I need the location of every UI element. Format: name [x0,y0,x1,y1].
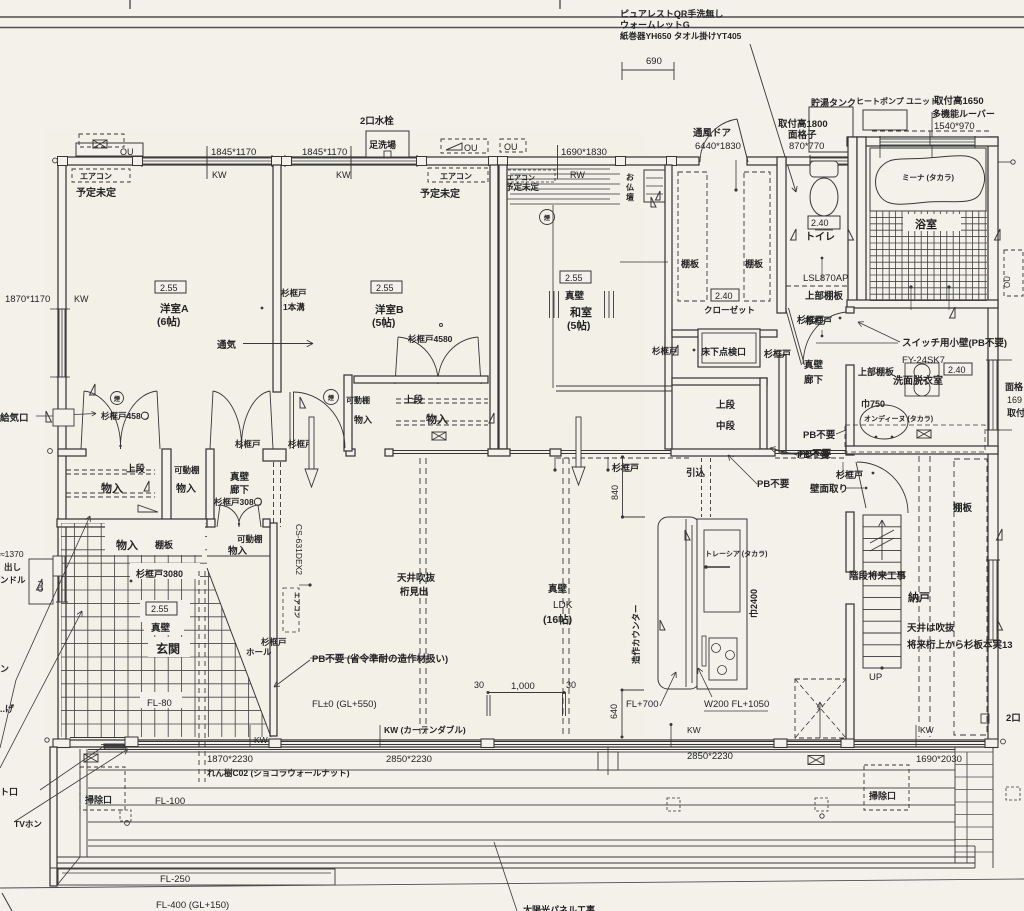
leader lines bottom-left [40,744,107,790]
big hollow arrow hall 2 [576,417,581,467]
kitchen sink unit [704,530,740,612]
svg-text:≈1370: ≈1370 [0,549,24,559]
svg-text:お: お [626,173,634,182]
leader arrows into genkan [16,516,90,680]
svg-text:FL±0 (GL+550): FL±0 (GL+550) [312,699,377,710]
svg-text:物入: 物入 [176,482,196,495]
svg-text:1870*1170: 1870*1170 [5,294,50,305]
small circle right of bath [1011,160,1015,164]
genkan diagonal [207,568,271,737]
nando window right wall [989,560,997,640]
washroom window right wall [989,360,997,430]
svg-text:2.55: 2.55 [151,604,169,614]
svg-text:物入: 物入 [354,414,372,425]
door washroom->hall arc [803,312,846,364]
yoshitsuA label [155,281,186,293]
svg-text:RW: RW [570,170,585,180]
top border double line [0,16,1024,18]
svg-text:仏: 仏 [625,183,634,192]
svg-text:FL-100: FL-100 [155,796,185,807]
svg-text:トレーシア (タカラ): トレーシア (タカラ) [705,549,767,558]
souji-guchi boxes [80,767,125,810]
svg-text:ヒートポンプ ユニット: ヒートポンプ ユニット [856,96,938,106]
washitsu right wall [665,165,672,449]
bath tile grid [870,211,987,301]
svg-text:面格: 面格 [1005,381,1024,392]
svg-text:TVホン: TVホン [14,819,42,829]
svg-text:2850*2230: 2850*2230 [687,751,733,762]
svg-text:KW (カーテンダブル): KW (カーテンダブル) [384,725,466,735]
svg-text:廊下: 廊下 [804,374,824,386]
svg-text:エアコン: エアコン [507,174,535,182]
closet shelf dashed boxes [678,172,707,301]
svg-text:天井吹抜: 天井吹抜 [397,572,436,584]
washitsu shelf line [620,261,668,263]
svg-text:真壁: 真壁 [804,359,824,371]
svg-text:浴室: 浴室 [915,217,937,231]
corner pen stroke bottom-left [2,893,12,911]
yukashita tenkenkou [698,329,760,367]
toilet fixture [810,161,838,177]
svg-text:造作カウンター: 造作カウンター [631,604,641,664]
svg-text:PB不要: PB不要 [803,430,836,441]
svg-text:640: 640 [609,704,619,719]
bottom wall pillar blocks [53,739,70,748]
window A 1845*1170 [142,158,272,164]
svg-text:棚板: 棚板 [745,258,764,269]
monoire bottom wall (genkan) [57,555,202,557]
svg-text:掃除口: 掃除口 [869,790,896,801]
svg-text:床下点検口: 床下点検口 [701,346,746,357]
svg-text:杉框戸: 杉框戸 [235,439,261,449]
svg-text:KW: KW [212,170,227,180]
svg-text:1845*1170: 1845*1170 [211,147,256,158]
svg-text:取付: 取付 [1007,407,1024,418]
svg-text:杉框戸: 杉框戸 [281,288,307,298]
stair door arc top [857,462,908,513]
svg-text:2.40: 2.40 [948,365,966,375]
dashed door track genkan [198,571,200,782]
yoshitsuA south doors sugikamachi4580 [84,391,121,449]
bath bottom wall [847,300,998,308]
svg-text:2口水栓: 2口水栓 [360,115,394,127]
svg-text:取付高1650: 取付高1650 [934,95,984,107]
doors arcs yoshitsuB closet [398,337,438,384]
svg-text:天井は吹抜: 天井は吹抜 [907,622,955,634]
svg-text:FL-400 (GL+150): FL-400 (GL+150) [156,900,229,911]
svg-text:UP: UP [869,672,882,683]
svg-text:690: 690 [646,56,662,67]
svg-text:FL+700: FL+700 [626,699,659,710]
svg-text:..げ: ..げ [0,703,15,714]
svg-text:(5帖): (5帖) [372,316,395,329]
svg-text:可動棚: 可動棚 [237,534,263,544]
svg-text:エアコン: エアコン [293,592,301,619]
svg-text:予定未定: 予定未定 [420,187,460,200]
svg-text:掃除口: 掃除口 [85,794,112,805]
window B 1845*1170 [285,158,417,164]
svg-text:桁見出: 桁見出 [400,586,429,598]
svg-text:中段: 中段 [716,420,736,432]
svg-text:(5帖): (5帖) [567,319,590,332]
svg-text:1,000: 1,000 [511,681,535,692]
svg-text:KW: KW [687,725,701,735]
nando dashed lines [918,456,920,737]
svg-text:(6帖): (6帖) [157,315,180,328]
OU dashed box 2 [500,139,526,152]
svg-text:PB不要 (省令準耐の造作材扱い): PB不要 (省令準耐の造作材扱い) [312,653,448,665]
svg-text:杉框戸: 杉框戸 [612,462,639,473]
small dashed squares + circles deck [120,810,131,821]
svg-text:1870*2230: 1870*2230 [207,754,253,765]
svg-text:杉框戸458〇: 杉框戸458〇 [101,411,150,421]
svg-text:PB不要: PB不要 [797,450,830,461]
wall over toilet top [747,157,786,165]
long leader bottom right [494,842,517,911]
svg-text:ホール: ホール [246,647,272,657]
svg-text:上段: 上段 [126,463,146,475]
svg-text:KW: KW [920,725,934,735]
svg-text:ンドル: ンドル [0,575,26,585]
washer fan circles [905,363,939,396]
corner circles bottom wall [45,738,49,742]
svg-text:太陽光パネル工事: 太陽光パネル工事 [522,904,595,911]
yoshitsuB door arc to hall [293,392,345,448]
deck boards [88,749,955,751]
washroom dashed counter [845,425,985,452]
svg-text:ン: ン [0,664,9,674]
svg-text:引込: 引込 [686,467,706,479]
svg-text:2.55: 2.55 [376,283,394,293]
svg-text:棚板: 棚板 [953,502,973,514]
svg-text:ピュアレストQR手洗無し: ピュアレストQR手洗無し [620,8,723,19]
genkan entry door [70,737,138,739]
svg-text:KW: KW [74,294,89,304]
svg-text:面格子: 面格子 [788,129,817,141]
svg-text:予定未定: 予定未定 [505,182,540,192]
svg-text:OU: OU [464,143,478,153]
svg-text:ミーナ (タカラ): ミーナ (タカラ) [902,172,955,182]
svg-text:物入: 物入 [228,545,248,557]
bath top window [880,139,975,145]
svg-text:2.55: 2.55 [565,273,583,283]
svg-text:洋室A: 洋室A [160,302,189,315]
smoke circle washitsu [540,210,555,225]
sliding rails y=451 [393,450,488,452]
closet bottom wall [672,330,777,337]
svg-text:可動棚: 可動棚 [174,465,200,475]
svg-text:1540*970: 1540*970 [934,121,975,132]
svg-text:1845*1170: 1845*1170 [302,147,347,158]
svg-text:棚板: 棚板 [155,539,174,550]
svg-text:通風ドア: 通風ドア [693,128,732,139]
svg-text:1690*1830: 1690*1830 [561,147,607,158]
svg-text:杉框戸: 杉框戸 [797,314,824,325]
svg-text:足洗場: 足洗場 [369,139,396,150]
svg-text:壁面取り: 壁面取り [810,483,848,495]
svg-text:廊下: 廊下 [230,484,250,496]
svg-text:真壁: 真壁 [151,622,171,634]
svg-text:煙: 煙 [328,394,334,402]
long middle wall y=450 segments [58,449,86,456]
kadou-dana closet small walls [207,519,215,527]
svg-text:多機能ルーバー: 多機能ルーバー [932,108,995,119]
svg-text:真壁: 真壁 [230,471,250,483]
svg-text:上段: 上段 [716,399,736,411]
wall between yoshitsuA/B [273,165,281,392]
deck outer frame left [50,747,57,886]
tokonoma divider [552,205,554,388]
svg-text:ト口: ト口 [0,787,18,797]
svg-text:OU: OU [1003,276,1012,288]
right exterior wall [988,137,998,742]
svg-text:巾2400: 巾2400 [748,589,759,618]
ground line [0,879,1024,888]
svg-text:杉框戸3080: 杉框戸3080 [136,568,183,579]
toilet top wall [786,157,857,165]
svg-text:クローゼット: クローゼット [704,305,755,315]
kitchen counter [658,517,700,689]
ceiling void dashes [419,458,421,738]
svg-text:OU: OU [120,147,134,157]
svg-text:出し: 出し [4,562,21,572]
toilet window 870*770 [810,158,848,164]
monoire yoshitsuB [396,398,488,400]
deck bowties [84,754,98,762]
svg-text:KW: KW [336,170,351,180]
svg-text:LSL870AP: LSL870AP [803,273,848,284]
svg-text:杉框戸4580: 杉框戸4580 [408,334,453,344]
ashiaraiba box [366,131,409,157]
svg-text:可動棚: 可動棚 [346,395,370,405]
svg-text:洗面脱衣室: 洗面脱衣室 [893,374,943,387]
hall closet doors [213,391,242,449]
bath top wall [847,137,998,146]
svg-text:給気口: 給気口 [0,412,29,424]
svg-text:×: × [817,706,821,713]
left exterior wall [58,157,66,742]
svg-text:トイレ: トイレ [805,231,835,243]
oshiire right wall [760,378,767,449]
stove [709,638,737,680]
hall divider wall below [273,462,275,527]
OU dashed box with triangle [441,139,488,153]
svg-text:30: 30 [474,680,484,690]
svg-text:物入: 物入 [101,481,123,495]
washitsu label [560,271,591,283]
aircon yotei-mitei left [72,169,130,182]
svg-text:オンディーヌ (タカラ): オンディーヌ (タカラ) [864,414,933,423]
svg-text:取付高1800: 取付高1800 [778,118,828,130]
svg-text:将来桁上から杉板本実13: 将来桁上から杉板本実13 [907,639,1013,651]
triangles misc [90,384,96,395]
svg-text:2.40: 2.40 [715,291,733,301]
white label patches [140,600,190,622]
FL-250 step [58,869,335,885]
svg-text:OU: OU [504,142,518,152]
corner circle top-left [53,158,58,163]
svg-text:予定未定: 予定未定 [76,186,116,199]
door arc yoshitsuA left [66,402,110,446]
aircon right [428,168,488,182]
closet right / toilet left wall [777,157,786,313]
svg-text:PB不要: PB不要 [757,479,790,490]
svg-text:物入: 物入 [426,412,448,426]
washitsu left wall [499,165,507,449]
svg-text:エアコン: エアコン [80,172,112,181]
svg-text:FL-80: FL-80 [147,698,172,709]
monoire A shelf dashes [66,469,155,471]
svg-text:棚板: 棚板 [681,258,700,269]
bath tub [870,148,986,211]
svg-text:杉框戸: 杉框戸 [261,637,287,647]
OU unit box top-left [76,143,143,156]
tsufu door arc [700,119,737,162]
tanaita dashed box [954,459,987,735]
left wall lower window [59,556,65,602]
svg-text:和室: 和室 [570,305,592,319]
genkan top wall [57,519,207,527]
svg-text:真壁: 真壁 [565,290,585,302]
svg-text:杉框戸: 杉框戸 [764,348,791,359]
RW window stripes over washitsu [500,168,610,170]
svg-text:KW: KW [254,735,268,745]
right edge OU dashed [1004,250,1023,296]
svg-text:CS-631DEX2: CS-631DEX2 [294,524,304,575]
svg-text:FL-250: FL-250 [160,874,190,885]
svg-text:上段: 上段 [404,394,424,406]
X dashed box [795,679,846,738]
svg-text:玄関: 玄関 [156,641,180,656]
svg-text:2口: 2口 [1006,713,1021,724]
svg-text:物入: 物入 [116,538,138,552]
svg-text:W200 FL+1050: W200 FL+1050 [704,699,769,710]
svg-text:壇: 壇 [626,192,634,202]
big hollow arrow hall 1 [309,417,314,469]
svg-text:巾750: 巾750 [861,398,885,409]
svg-text:840: 840 [610,485,620,500]
svg-text:2.55: 2.55 [160,283,178,293]
svg-text:870*770: 870*770 [789,141,824,152]
deck inner edge left [79,749,81,857]
svg-text:真壁: 真壁 [548,583,568,595]
left wall window 1870*1170 [59,309,65,377]
svg-text:スイッチ用小壁(PB不要): スイッチ用小壁(PB不要) [902,337,1007,349]
svg-text:階段将来工事: 階段将来工事 [849,570,907,582]
bottom windows thin lines [138,741,269,743]
deck right strip [954,747,956,863]
washroom bottom wall [846,446,998,454]
porch box left [29,559,53,604]
svg-text:貯湯タンク: 貯湯タンク [811,97,856,108]
svg-text:上部棚板: 上部棚板 [858,366,895,377]
yoshitsuB label [371,281,402,293]
toilet right / bath left wall [848,137,857,307]
deck bottom edges [57,856,975,858]
svg-text:169: 169 [1007,395,1022,405]
svg-text:洋室B: 洋室B [375,303,404,316]
top exterior wall [58,157,699,165]
pillar blocks top wall [58,157,68,166]
tatami marks [549,291,551,318]
svg-text:煙: 煙 [114,395,120,403]
svg-text:(16帖): (16帖) [543,613,572,626]
svg-text:煙: 煙 [544,214,550,222]
nando left wall [846,512,854,572]
stairs [863,515,901,668]
oshiire top wall [672,378,767,385]
svg-text:2.40: 2.40 [811,218,829,228]
svg-text:紙巻器YH650 タオル掛けYT405: 紙巻器YH650 タオル掛けYT405 [620,31,742,41]
svg-text:30: 30 [566,680,576,690]
svg-text:2850*2230: 2850*2230 [386,754,432,765]
svg-text:通気: 通気 [217,339,237,351]
svg-text:上部棚板: 上部棚板 [805,290,844,302]
svg-text:1本溝: 1本溝 [283,302,305,312]
washroom left wall [846,307,854,313]
bottom exterior wall [57,740,997,747]
yoshitsuB right wall [490,165,498,449]
aircon mini right2 [503,170,555,182]
svg-text:ウォームレットG: ウォームレットG [620,20,690,30]
svg-text:エアコン: エアコン [440,172,472,181]
